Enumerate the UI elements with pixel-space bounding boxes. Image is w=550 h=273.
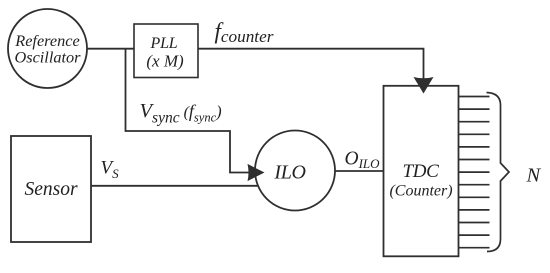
svg-text:TDC: TDC bbox=[402, 161, 439, 182]
svg-text:PLL: PLL bbox=[150, 35, 178, 52]
brace: grouping TDC output bus, labelled N bbox=[487, 93, 510, 252]
label: f_counter bbox=[215, 19, 274, 47]
wire: V_sync branch from node at (125.5,48.7) down and right into ILO bbox=[126, 49, 250, 173]
block: TDC (Counter) bbox=[384, 86, 459, 256]
arrowhead: f_counter into TDC bbox=[414, 77, 434, 94]
block: Sensor bbox=[11, 136, 91, 242]
svg-text:(x M): (x M) bbox=[146, 52, 184, 71]
wire: O_ILO from ILO output to TDC input bbox=[335, 170, 384, 172]
svg-text:Oscillator: Oscillator bbox=[14, 48, 81, 67]
label: V_S bbox=[101, 158, 120, 182]
svg-text:ILO: ILO bbox=[273, 161, 305, 183]
label: O_ILO bbox=[345, 149, 381, 172]
label: N bbox=[526, 165, 542, 187]
label: V_sync (f_sync) bbox=[140, 100, 222, 127]
wire: f_counter from PLL output to TDC top bbox=[198, 49, 424, 79]
block: ILO circle bbox=[255, 131, 335, 211]
arrowhead: V_sync into ILO bbox=[248, 164, 265, 181]
wire: oscillator output to PLL input bbox=[87, 48, 134, 50]
wire: V_S from Sensor output to ILO bbox=[91, 185, 258, 187]
svg-text:N: N bbox=[526, 165, 542, 187]
svg-text:(Counter): (Counter) bbox=[389, 183, 452, 200]
block: PLL (x M) bbox=[134, 24, 198, 78]
block: Reference Oscillator circle bbox=[8, 9, 87, 88]
wires: TDC output bus lines (13) bbox=[459, 97, 490, 248]
svg-text:Sensor: Sensor bbox=[24, 179, 77, 200]
